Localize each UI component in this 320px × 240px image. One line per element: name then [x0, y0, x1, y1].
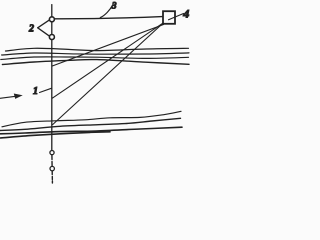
source box 4 — [163, 11, 175, 24]
geophone circle lower — [50, 166, 54, 170]
wire: surface line 3 — [54, 17, 162, 19]
wire: dashed lower end of borehole line — [51, 155, 54, 183]
svg-text:1: 1 — [33, 86, 38, 97]
upper stratum wavy line 1 — [6, 48, 189, 51]
upper stratum wavy line 2 — [2, 53, 189, 55]
upper stratum wavy line 3 — [1, 57, 189, 60]
upper stratum wavy line 4 — [2, 60, 189, 65]
svg-text:2: 2 — [28, 24, 34, 35]
leader line to label 4 — [169, 14, 184, 20]
leader line from label 1 to borehole — [40, 88, 52, 92]
wire: vertical borehole line — [51, 5, 53, 150]
lower stratum wavy line 2 — [0, 118, 181, 130]
arrow at left edge — [0, 96, 17, 98]
lower stratum wavy line 3 — [0, 127, 182, 134]
ray from source to borehole (middle) — [52, 23, 163, 98]
lower stratum wavy line 1 — [2, 111, 181, 127]
lower stratum wavy line 4 — [0, 132, 110, 138]
leader line to label 3 — [100, 5, 113, 18]
pulley 2: bottom circle — [49, 35, 54, 40]
geophone circle upper — [50, 151, 54, 155]
ray from source to borehole (upper) — [52, 25, 163, 67]
pulley 2: top circle — [49, 17, 54, 22]
svg-text:3: 3 — [111, 0, 117, 10]
ray from source to borehole (lower) — [53, 23, 163, 124]
pulley 2: line apex to bottom circle — [38, 28, 50, 37]
svg-text:4: 4 — [182, 6, 189, 20]
pulley U-sheave 2: line apex to top circle — [38, 20, 50, 28]
